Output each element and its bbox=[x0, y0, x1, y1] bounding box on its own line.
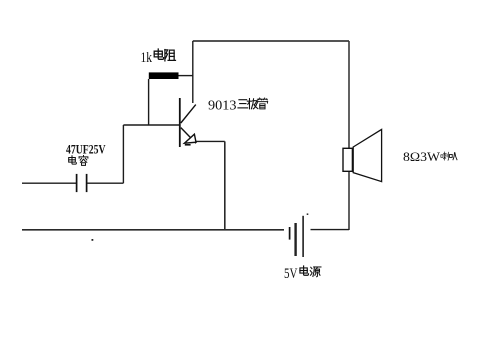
speaker LS1 rectangle bbox=[343, 148, 352, 171]
arrow underline dash bbox=[185, 144, 191, 146]
battery BT1 5V plates bbox=[289, 227, 291, 240]
transistor emitter diagonal bbox=[181, 128, 196, 144]
label 9013三极管 bbox=[208, 98, 268, 114]
speaker cone bbox=[353, 129, 381, 181]
wire: top horizontal collector-to-speaker bbox=[193, 40, 349, 42]
wire: right vertical to speaker and battery bbox=[348, 41, 350, 230]
wire: emitter horizontal bbox=[196, 140, 225, 142]
wire: capacitor input left bbox=[22, 182, 76, 184]
svg-text:1k: 1k bbox=[141, 50, 153, 66]
svg-text:9013: 9013 bbox=[208, 99, 237, 114]
transistor emitter arrow bbox=[184, 134, 196, 143]
wire: base riser vertical bbox=[122, 125, 124, 183]
wire: capacitor to base riser bbox=[87, 182, 123, 184]
wire: base horizontal bbox=[123, 124, 179, 126]
label 8Ω3W喇叭 bbox=[403, 150, 457, 164]
label 47UF25V 电容 bbox=[66, 143, 106, 166]
svg-text:47UF25V: 47UF25V bbox=[66, 143, 106, 157]
svg-text:5V: 5V bbox=[284, 266, 298, 282]
label 1k电阻 bbox=[141, 49, 176, 66]
wire: bottom right horizontal to battery bbox=[311, 229, 350, 231]
svg-text:8Ω3W: 8Ω3W bbox=[403, 150, 440, 164]
wire: collector riser vertical bbox=[192, 41, 194, 103]
transistor collector diagonal bbox=[181, 105, 196, 123]
transistor Q1 9013 base bar bbox=[179, 98, 181, 147]
resistor R 1k body bbox=[149, 72, 179, 79]
stray dot mark bbox=[92, 239, 94, 241]
wire: resistor right lead bbox=[179, 75, 193, 77]
capacitor C1 plates bbox=[76, 174, 78, 192]
wire: resistor left lead down to base wire bbox=[148, 79, 150, 125]
label 5V电源 bbox=[284, 266, 321, 282]
wire: bottom left long horizontal bbox=[22, 229, 284, 231]
battery plus dot bbox=[307, 213, 309, 215]
wire: emitter vertical down bbox=[224, 141, 226, 229]
